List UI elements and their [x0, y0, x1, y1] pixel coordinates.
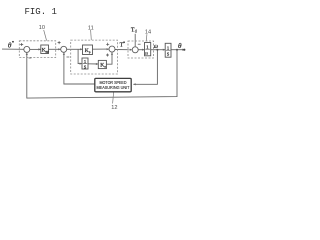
svg-text:Kp: Kp: [85, 48, 91, 54]
svg-text:d: d: [135, 29, 137, 33]
svg-text:Ka: Ka: [100, 63, 106, 69]
svg-text:FIG. 1: FIG. 1: [25, 7, 57, 17]
svg-text:12: 12: [111, 105, 117, 111]
svg-text:Kpp: Kpp: [42, 48, 49, 54]
svg-text:S: S: [167, 52, 170, 57]
svg-text:*: *: [123, 41, 125, 46]
svg-text:JS: JS: [145, 51, 148, 55]
svg-text:ω: ω: [154, 44, 158, 50]
svg-text:θ: θ: [178, 42, 182, 50]
svg-text:MEASURING UNIT: MEASURING UNIT: [97, 85, 130, 90]
svg-text:S: S: [84, 65, 87, 70]
svg-text:*: *: [12, 40, 14, 45]
svg-text:14: 14: [145, 30, 151, 36]
